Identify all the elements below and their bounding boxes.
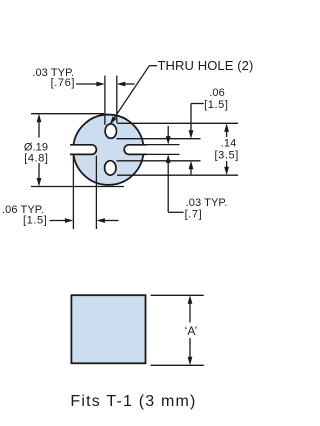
- dim .03 TYP [.76] ext line left: [104, 76, 106, 125]
- dim .03 TYP [.76] right arrow: [124, 83, 135, 85]
- dim .14 [3.5] line + arrows: [226, 130, 228, 137]
- dim .06 TYP [1.5] left arrow: [50, 220, 67, 222]
- svg-text:[3.5]: [3.5]: [214, 150, 238, 162]
- dim dia .19 bottom ext line: [31, 186, 124, 188]
- dim .06 TYP [1.5] ext line left: [72, 156, 74, 230]
- spacer body top view circle: [73, 115, 143, 185]
- dim dia .19 top ext line: [31, 113, 104, 115]
- dim .03 TYP [.76] ext line right: [116, 76, 118, 123]
- dim .03 TYP [.76] left arrow: [76, 83, 98, 85]
- dim .06 TYP [1.5] ext line right: [95, 156, 97, 230]
- right slot: [124, 145, 147, 155]
- dim .03 TYP [.7] leader elbow: [168, 211, 183, 213]
- svg-text:.06: .06: [209, 87, 225, 99]
- node L3 ext line slot top: [145, 144, 180, 146]
- dim A line + arrows: [189, 301, 191, 323]
- dim .06 [1.5] leader: [191, 103, 204, 105]
- svg-text:Fits T-1 (3 mm): Fits T-1 (3 mm): [70, 393, 196, 410]
- svg-text:THRU HOLE (2): THRU HOLE (2): [158, 58, 254, 73]
- svg-text:.14: .14: [221, 138, 237, 150]
- svg-text:[1.5]: [1.5]: [23, 214, 47, 226]
- dim .03 TYP [.7] arrows: [167, 126, 169, 137]
- side view square: [71, 295, 145, 363]
- svg-text:[4.8]: [4.8]: [24, 152, 48, 164]
- dim A top ext line: [151, 294, 204, 296]
- dim A bottom ext line: [151, 364, 204, 366]
- left slot: [70, 145, 96, 155]
- node L6 ext line bottom hole bottom: [117, 174, 238, 176]
- dim dia .19 line + arrows: [38, 120, 40, 138]
- node L2 ext line top hole bottom: [117, 138, 201, 140]
- thru hole bottom: [105, 161, 116, 175]
- dim .06 TYP [1.5] right arrow: [104, 220, 119, 222]
- svg-text:.03 TYP.: .03 TYP.: [186, 197, 228, 209]
- thru hole top: [105, 124, 116, 138]
- node L4 ext line slot bottom: [145, 153, 180, 155]
- svg-text:[1.5]: [1.5]: [204, 99, 228, 111]
- dim .06 [1.5] lower arrow: [190, 168, 192, 175]
- svg-text:‘A’: ‘A’: [185, 324, 197, 338]
- svg-text:[.76]: [.76]: [51, 77, 75, 89]
- node L5 ext line bottom hole top: [117, 160, 201, 162]
- svg-text:[.7]: [.7]: [185, 208, 203, 220]
- node L1 ext line top hole top: [117, 122, 238, 124]
- leader THRU HOLE: [149, 65, 157, 67]
